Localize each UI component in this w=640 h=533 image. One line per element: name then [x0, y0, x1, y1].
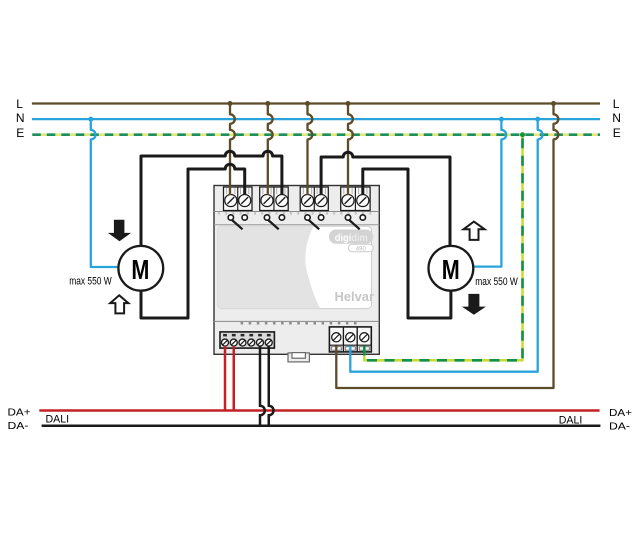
motor M2 (right)	[429, 246, 474, 291]
wire E line (green/yellow)	[32, 133, 600, 136]
wire brown drop 1 to terminal 1	[230, 104, 235, 196]
wire DA+ red bus	[39, 409, 599, 412]
wire L line (brown)	[32, 102, 600, 104]
svg-text:L: L	[16, 97, 23, 111]
node E-junction	[520, 132, 525, 137]
wire brown drop 4 to terminal 7	[348, 104, 353, 196]
svg-text:DA-: DA-	[8, 420, 30, 432]
wire DA- drop 2	[269, 346, 274, 426]
terminal group 2	[260, 187, 289, 211]
wire blue neutral to left motor	[91, 119, 119, 267]
svg-text:E: E	[16, 126, 24, 140]
arrow up outline (right motor)	[464, 222, 485, 240]
relay contact pins group 2	[264, 215, 284, 230]
svg-text:digidim: digidim	[335, 233, 368, 244]
svg-text:DALI: DALI	[559, 415, 583, 427]
wire brown drop 3 to terminal 5	[308, 104, 313, 196]
node N-left	[88, 117, 93, 122]
svg-text:DALI: DALI	[46, 414, 70, 426]
wire N line (blue)	[32, 118, 600, 120]
node L-drop2	[265, 101, 270, 106]
device bottom strip separator	[214, 320, 379, 322]
wire blue neutral to right motor	[473, 119, 506, 267]
svg-text:DA-: DA-	[609, 420, 631, 432]
wire DA+ drop 2	[233, 346, 236, 411]
node L-drop3	[305, 101, 310, 106]
node N-right2	[535, 117, 540, 122]
wire brown drop 2 to terminal 3	[268, 104, 273, 196]
device top strip vent marks	[218, 212, 371, 214]
svg-text:M: M	[442, 254, 460, 285]
svg-text:DA+: DA+	[8, 407, 31, 419]
svg-text:490: 490	[356, 246, 367, 252]
device top strip separator line	[214, 211, 379, 213]
relay contact pins group 3	[305, 215, 324, 230]
wire left motor top from terminal 4	[141, 151, 282, 246]
node N-right1	[499, 117, 504, 122]
svg-text:E: E	[613, 126, 621, 140]
terminal group 3	[300, 187, 328, 211]
wire DA- black bus	[42, 424, 601, 427]
wire left motor bottom from terminal 2	[141, 164, 245, 318]
wire right motor top from terminal 6	[321, 152, 450, 246]
relay contact pins group 1	[228, 215, 247, 230]
main front panel with white swoosh	[218, 226, 372, 308]
terminal group 1	[224, 187, 253, 211]
wire earth from output block to E (yellow base)	[364, 135, 522, 361]
wire brown return from output block to L	[336, 104, 558, 389]
svg-text:N: N	[16, 111, 25, 125]
wire earth green dashes	[364, 135, 522, 361]
terminal group 4	[341, 187, 370, 211]
device panel separator line	[214, 224, 379, 226]
svg-text:max 550 W: max 550 W	[475, 276, 518, 288]
device bottom vent marks	[241, 322, 357, 325]
node L-return	[551, 101, 556, 106]
arrow up outline (left motor)	[110, 295, 128, 313]
node L-drop1	[228, 101, 233, 106]
relay contact pins group 4	[345, 215, 365, 230]
device body U1 (digidim 490 controller)	[214, 186, 379, 355]
svg-text:L: L	[613, 97, 620, 111]
arrow down filled (right motor)	[462, 294, 486, 315]
svg-text:DA+: DA+	[609, 407, 632, 419]
svg-text:Helvar: Helvar	[335, 289, 375, 304]
svg-text:max 550 W: max 550 W	[69, 275, 112, 287]
wire DA- drop 1	[260, 346, 265, 426]
digidim logo pill	[329, 230, 373, 245]
DIN clip tab	[288, 353, 309, 362]
node L-drop4	[346, 101, 351, 106]
arrow down filled (left motor)	[108, 220, 131, 242]
wire DA+ drop 1	[224, 346, 227, 411]
490 badge	[348, 244, 373, 252]
svg-text:N: N	[612, 111, 621, 125]
svg-text:M: M	[131, 254, 149, 285]
wire right motor bottom from terminal 8	[363, 169, 451, 318]
wire blue return from output block to N	[350, 119, 542, 372]
motor M1 (left)	[118, 246, 163, 291]
